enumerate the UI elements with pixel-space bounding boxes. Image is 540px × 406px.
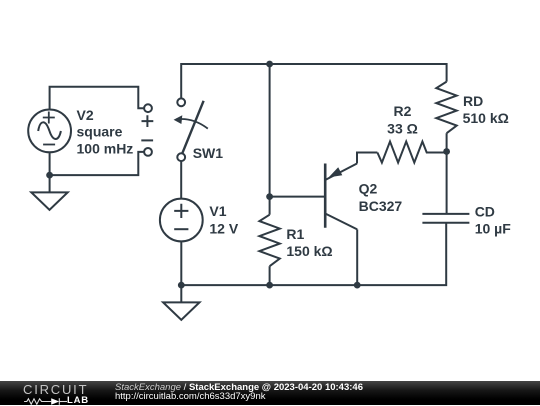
junction top rail at node x=269.5 [266, 61, 273, 68]
switch SW1 [174, 98, 208, 161]
svg-text:BC327: BC327 [359, 198, 403, 214]
ground under V2 [31, 192, 67, 210]
wire node to CD top plate [446, 152, 448, 214]
voltage source V1 [160, 199, 203, 242]
resistor RD [436, 82, 456, 152]
CircuitLab logo text LAB [67, 396, 89, 405]
resistor R1 [259, 197, 279, 286]
svg-text:R2: R2 [394, 103, 412, 119]
svg-text:10 µF: 10 µF [475, 221, 512, 237]
wire SW1 to V1 [180, 161, 182, 199]
svg-text:150 kΩ: 150 kΩ [286, 243, 332, 259]
wire V2 bottom loop from minus terminal [50, 152, 144, 175]
wire Q2 base from node to base bar [270, 196, 325, 198]
svg-text:Q2: Q2 [359, 181, 378, 197]
terminal circle plus [144, 104, 152, 112]
CircuitLab logo text CIRCUIT [23, 385, 88, 395]
minus sign at terminal [141, 139, 153, 141]
junction bottom rail right (collector) [354, 282, 361, 289]
svg-text:V1: V1 [209, 203, 226, 219]
terminal circle minus [144, 148, 152, 156]
junction RD / R2 / CD node [443, 148, 450, 155]
svg-text:R1: R1 [286, 226, 304, 242]
wire V2 to ground [49, 152, 51, 193]
svg-text:square: square [77, 124, 123, 140]
wire V1 to bottom rail [180, 241, 182, 285]
svg-text:33 Ω: 33 Ω [387, 121, 418, 137]
svg-text:100 mHz: 100 mHz [77, 140, 134, 156]
ground under V1 [180, 285, 182, 302]
junction at R1 top / Q2 base node [266, 193, 273, 200]
voltage source V2 [28, 109, 71, 152]
svg-text:SW1: SW1 [193, 145, 224, 161]
resistor R2 [377, 142, 446, 163]
capacitor CD [422, 214, 469, 223]
svg-text:V2: V2 [77, 107, 94, 123]
footer bar [0, 381, 540, 405]
footer attribution text [115, 383, 363, 402]
wire top rail from SW1 top to RD top [181, 64, 446, 98]
svg-text:12 V: 12 V [209, 220, 238, 236]
svg-text:RD: RD [463, 93, 483, 109]
svg-text:510 kΩ: 510 kΩ [463, 110, 509, 126]
wire bottom rail [181, 223, 446, 285]
junction bottom rail mid [266, 282, 273, 289]
CircuitLab logo waveform resistor+diode [22, 397, 68, 406]
junction bottom rail left [178, 282, 185, 289]
wire middle column down to R1 [269, 64, 271, 197]
wire emitter jog to R2 [357, 153, 377, 164]
transistor Q2 [325, 164, 357, 286]
junction V2 bottom [46, 172, 53, 179]
plus sign at terminal [142, 115, 154, 127]
svg-text:CD: CD [475, 204, 495, 220]
wire V2 top loop to plus terminal [50, 87, 144, 110]
